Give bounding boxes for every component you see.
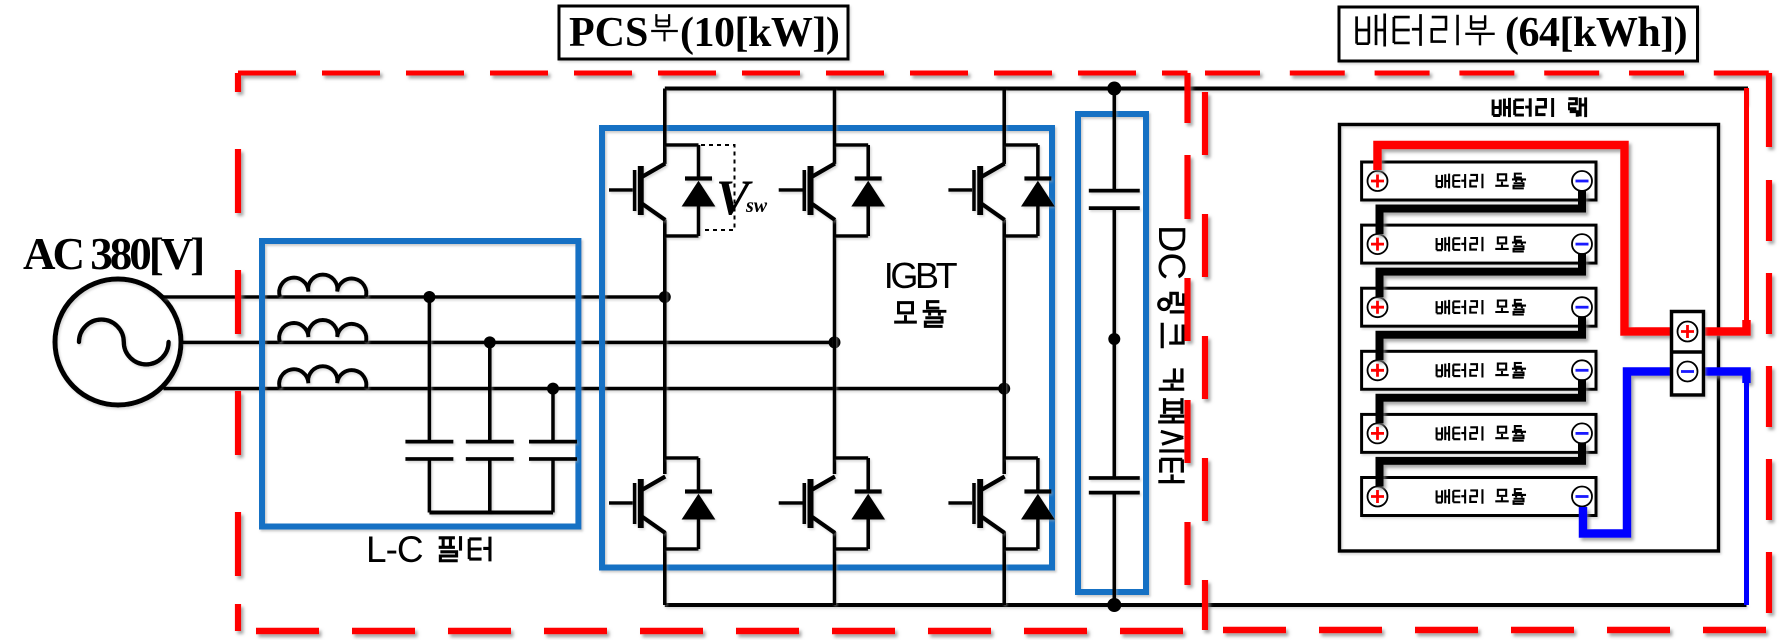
diode D5 (anti-parallel) (852, 458, 884, 549)
wire DC bus top rail (665, 89, 1746, 106)
wire battery series link 5 (1380, 442, 1583, 486)
transistor Q3 (IGBT) (948, 145, 1038, 236)
svg-text:sw: sw (745, 195, 768, 217)
battery rack label (1493, 97, 1586, 117)
L-C filter box (262, 241, 578, 527)
node DC+ (1107, 82, 1121, 96)
transistor Q4 (IGBT) (609, 458, 699, 549)
svg-text:IGBT: IGBT (884, 255, 958, 296)
svg-text:(64[kWh]): (64[kWh]) (1505, 10, 1687, 56)
wire phase A (164, 295, 665, 299)
diode D3 (anti-parallel) (1022, 145, 1054, 236)
capacitor C5 (1089, 339, 1140, 605)
node DC- (1107, 598, 1121, 612)
capacitor C2 (466, 342, 514, 512)
IGBT module box (602, 128, 1052, 568)
diode D4 (anti-parallel) (683, 458, 715, 549)
transistor Q2 (IGBT) (779, 145, 869, 236)
L-C filter label (366, 529, 490, 570)
inductor L2 (279, 320, 366, 342)
wire capacitor common bus (429, 511, 553, 515)
svg-text:L-C: L-C (366, 529, 423, 570)
node A (phase A to C1) (423, 291, 435, 303)
diode D6 (anti-parallel) (1022, 458, 1054, 549)
capacitor C1 (405, 297, 453, 513)
wire battery series link 1 (1380, 190, 1583, 234)
battery module B6 (1362, 478, 1596, 516)
battery module B2 (1362, 225, 1596, 263)
transistor Q1 (IGBT) (609, 145, 699, 236)
battery rack box (1340, 125, 1719, 552)
wire battery series link 3 (1380, 316, 1583, 360)
node B (phase B to C2) (484, 336, 496, 348)
inductor L1 (279, 275, 366, 297)
transistor Q5 (IGBT) (779, 458, 869, 549)
wire battery series link 2 (1380, 253, 1583, 297)
inductor L3 (279, 366, 366, 388)
wire leg 3 vertical (1002, 89, 1006, 606)
node phase C to leg 3 (998, 383, 1010, 395)
svg-text:DC: DC (1150, 225, 1192, 280)
battery module B3 (1362, 288, 1596, 326)
battery module B1 (1362, 162, 1596, 200)
svg-text:(10[kW]): (10[kW]) (680, 10, 839, 56)
node DC mid (1108, 333, 1120, 345)
svg-text:AC 380[V]: AC 380[V] (23, 229, 202, 279)
transistor Q6 (IGBT) (948, 458, 1038, 549)
wire DC bus bottom rail (665, 603, 1747, 607)
battery title box (1339, 7, 1698, 61)
node phase A to leg 1 (659, 291, 671, 303)
IGBT module label (884, 255, 958, 326)
wire leg 2 vertical (833, 89, 837, 606)
battery output connector (1672, 312, 1704, 396)
battery module B5 (1362, 414, 1596, 452)
wire phase C (164, 387, 1005, 391)
PCS title box (559, 6, 848, 59)
node phase B to leg 2 (829, 336, 841, 348)
node C (phase C to C3) (547, 383, 559, 395)
battery module B4 (1362, 351, 1596, 389)
battery section dashed border (1205, 73, 1769, 630)
capacitor C3 (529, 389, 577, 513)
wire battery series link 4 (1380, 379, 1583, 423)
wire battery positive (red) (1378, 145, 1679, 332)
capacitor C4 (1089, 89, 1140, 340)
DC link capacitor box (1078, 114, 1146, 592)
wire phase B (182, 341, 835, 345)
Vsw dotted box (701, 145, 735, 230)
DC link capacitor label (1150, 225, 1192, 482)
diode D1 (anti-parallel) (683, 145, 715, 236)
svg-text:PCS: PCS (569, 10, 648, 56)
wire battery negative (blue) (1583, 372, 1678, 534)
diode D2 (anti-parallel) (852, 145, 884, 236)
wire leg 1 vertical (663, 89, 667, 606)
AC source V1 (55, 279, 181, 405)
PCS section dashed border (238, 73, 1188, 631)
